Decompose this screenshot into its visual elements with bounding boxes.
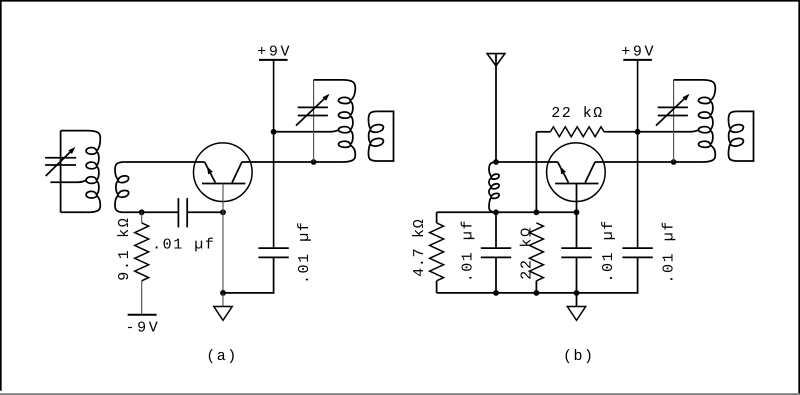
wire 22k-h right lead: [604, 131, 638, 133]
inductor T2 secondary coil: [369, 111, 384, 161]
svg-text:.01 µf: .01 µf: [296, 221, 313, 284]
inductor T1 primary coil: [86, 131, 100, 213]
wire base node to coupling cap: [124, 211, 178, 213]
wire bias rail (b): [437, 211, 577, 213]
wire T2 tank left side: [313, 80, 315, 162]
wire base cap C6 top lead: [576, 212, 578, 248]
inductor L1 antenna coil: [489, 162, 499, 212]
wire 22k-h left vertical: [535, 132, 537, 213]
capacitor C2 coupling plates: [178, 198, 187, 227]
svg-text:.01 µf: .01 µf: [152, 237, 215, 254]
wire ground stub (a): [222, 293, 224, 307]
node base lead junction: [220, 209, 226, 215]
wire antenna node to emitter: [496, 161, 558, 163]
wire resistor bottom lead: [141, 281, 143, 315]
svg-text:+9V: +9V: [621, 44, 656, 61]
variable capacitor C8 plates: [658, 107, 688, 115]
ground symbol (a): [214, 307, 232, 321]
wire C5 top lead: [495, 212, 497, 248]
wire T3 tank left side: [673, 80, 675, 162]
wire resistor top lead: [141, 212, 143, 223]
variable capacitor C3 arrow: [296, 94, 330, 126]
wire collector Q1 to tank: [242, 161, 342, 163]
wire ground rail (b): [437, 257, 638, 293]
node 22k vert top junction: [534, 209, 540, 215]
wire emitter Q1: [124, 161, 204, 163]
svg-text:.01 µf: .01 µf: [660, 220, 677, 283]
wire collector Q2 to tank: [595, 161, 702, 163]
wire ground stub (b): [576, 293, 578, 307]
node tank bottom junction (a): [311, 159, 317, 165]
transistor Q2: [547, 143, 606, 202]
inductor T1 secondary coil: [115, 162, 129, 212]
border frame left: [0, 0, 2, 391]
wire T3 tank top rail: [674, 79, 702, 81]
wire base lead Q2 down: [576, 184, 578, 213]
wire +9V feed to T3 tap: [638, 130, 699, 132]
wire +9V feed to T2 tap: [274, 130, 339, 132]
wire 4.7k bottom lead: [436, 281, 438, 293]
svg-text:.01 µf: .01 µf: [600, 219, 617, 282]
inductor T3 secondary coil: [729, 111, 744, 161]
svg-text:9.1 kΩ: 9.1 kΩ: [116, 216, 133, 280]
capacitor C7 bypass plates: [622, 248, 652, 257]
resistor R2 4.7k: [430, 223, 444, 281]
svg-text:22 kΩ: 22 kΩ: [519, 226, 536, 280]
resistor R1 9.1k: [135, 223, 149, 281]
variable capacitor C8 arrow: [656, 94, 690, 126]
supply +9V bar (a): [259, 59, 288, 61]
node +9V feed junction (a): [271, 129, 277, 135]
svg-text:22 kΩ: 22 kΩ: [551, 105, 604, 122]
svg-text:-9V: -9V: [126, 319, 161, 336]
wire 22k-h left lead: [536, 131, 550, 133]
wire 4.7k top lead: [436, 212, 438, 223]
wire antenna lead: [495, 54, 497, 162]
node ground junction (a): [220, 290, 226, 296]
resistor R3 22k vertical: [529, 223, 543, 281]
node +9V junction (b): [635, 129, 641, 135]
antenna symbol: [487, 54, 505, 66]
resistor R4 22k horizontal: [550, 127, 604, 137]
wire T3 secondary loop: [737, 111, 753, 161]
wire T1 primary top rail: [61, 130, 87, 132]
capacitor C5 plates: [481, 248, 511, 257]
border frame top: [0, 0, 800, 2]
capacitor C4 bypass plates: [258, 248, 288, 257]
svg-text:(a): (a): [206, 348, 238, 365]
wire T1 tap: [50, 180, 86, 182]
node C5 bottom junction: [493, 290, 499, 296]
node base rail junction (b): [574, 209, 580, 215]
variable capacitor C1 plates: [45, 158, 76, 165]
svg-text:.01 µf: .01 µf: [459, 219, 476, 282]
wire T1 primary bottom rail: [61, 211, 87, 213]
inductor T3 primary coil: [699, 80, 716, 162]
wire T2 tank top rail: [314, 79, 342, 81]
wire ground run (a): [223, 257, 274, 293]
wire C6 bottom lead: [576, 257, 578, 293]
supply -9V bar: [128, 314, 157, 316]
wire R3 bottom lead: [535, 281, 537, 293]
wire +9V rail (a): [273, 60, 275, 248]
bottom gray bar: [0, 393, 800, 395]
node base-bias junction: [139, 209, 145, 215]
wire +9V rail (b): [637, 60, 639, 248]
node tank bottom junction (b): [671, 159, 677, 165]
variable capacitor C1 arrow: [46, 147, 76, 176]
border frame right: [798, 0, 800, 394]
svg-text:(b): (b): [563, 348, 595, 365]
variable capacitor C3 plates: [298, 107, 328, 115]
svg-text:+9V: +9V: [257, 44, 292, 61]
wire C5 bottom lead: [495, 257, 497, 293]
wire coupling cap to base lead: [187, 211, 223, 213]
inductor T2 primary coil: [339, 80, 356, 162]
node ground junction (b): [574, 290, 580, 296]
wire T1 primary left side: [60, 131, 62, 213]
ground symbol (b): [567, 307, 585, 321]
supply +9V bar (b): [623, 59, 652, 61]
wire T2 secondary loop: [377, 111, 393, 161]
wire base lead Q1 down: [222, 184, 224, 293]
svg-text:4.7 kΩ: 4.7 kΩ: [411, 219, 428, 277]
transistor Q1: [194, 143, 253, 202]
node coil bottom junction: [493, 209, 499, 215]
node antenna junction: [493, 159, 499, 165]
capacitor C6 plates: [561, 248, 591, 257]
node R3 bottom junction: [534, 290, 540, 296]
